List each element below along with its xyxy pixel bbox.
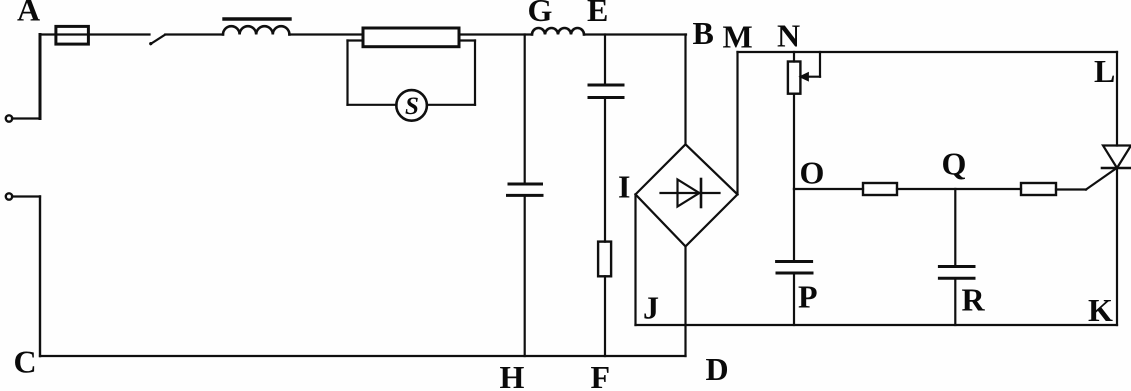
svg-text:L: L (1094, 53, 1115, 89)
svg-text:C: C (14, 344, 37, 380)
svg-text:D: D (706, 351, 729, 387)
svg-text:G: G (528, 0, 553, 28)
svg-text:Q: Q (942, 146, 967, 182)
svg-text:A: A (17, 0, 40, 28)
svg-text:I: I (618, 169, 630, 205)
svg-text:R: R (962, 282, 986, 318)
svg-text:P: P (798, 279, 818, 315)
svg-text:N: N (777, 18, 800, 54)
svg-text:S: S (405, 93, 419, 120)
svg-text:M: M (723, 19, 753, 55)
svg-text:H: H (500, 359, 525, 391)
svg-text:J: J (643, 290, 659, 326)
svg-text:F: F (591, 359, 611, 391)
svg-text:O: O (800, 155, 825, 191)
svg-text:E: E (587, 0, 608, 28)
svg-text:B: B (693, 15, 714, 51)
svg-text:K: K (1088, 292, 1113, 328)
